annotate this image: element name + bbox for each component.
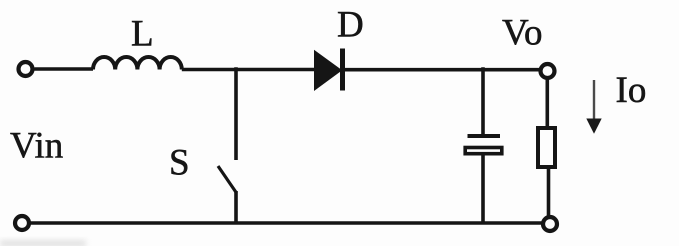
capacitor C bottom plate box bbox=[465, 148, 502, 154]
svg-text:Vo: Vo bbox=[502, 13, 542, 54]
wire inductor to diode bbox=[182, 68, 316, 72]
switch S branch: upper wire segment bbox=[234, 67, 238, 160]
watermark smudge bottom-left bbox=[0, 240, 86, 246]
capacitor C top plate bbox=[468, 134, 501, 138]
terminal output bottom-right bbox=[543, 217, 557, 231]
wire diode to output terminal bbox=[342, 68, 539, 72]
svg-text:L: L bbox=[131, 14, 154, 55]
switch S branch: lower wire segment bbox=[234, 191, 238, 223]
diode D cathode bar bbox=[340, 49, 345, 91]
capacitor branch lower wire bbox=[481, 156, 485, 224]
svg-text:Io: Io bbox=[616, 70, 647, 111]
capacitor branch upper wire bbox=[481, 67, 485, 134]
terminal output top-right Vo bbox=[541, 64, 555, 78]
bottom wire bbox=[31, 221, 542, 225]
wire output terminal to resistor bbox=[545, 80, 549, 129]
current arrow Io head bbox=[586, 119, 601, 134]
current arrow Io shaft bbox=[593, 80, 595, 121]
svg-text:Vin: Vin bbox=[10, 126, 63, 167]
resistor load R bbox=[538, 128, 555, 167]
svg-text:S: S bbox=[169, 143, 190, 184]
wire resistor to bottom terminal bbox=[547, 167, 551, 216]
svg-text:D: D bbox=[337, 5, 364, 46]
switch S blade bbox=[218, 166, 237, 193]
wire top-left to inductor bbox=[35, 67, 94, 71]
diode D triangle bbox=[314, 50, 342, 91]
terminal input top-left bbox=[19, 62, 33, 76]
inductor L bbox=[93, 57, 182, 70]
terminal input bottom-left bbox=[15, 216, 29, 230]
